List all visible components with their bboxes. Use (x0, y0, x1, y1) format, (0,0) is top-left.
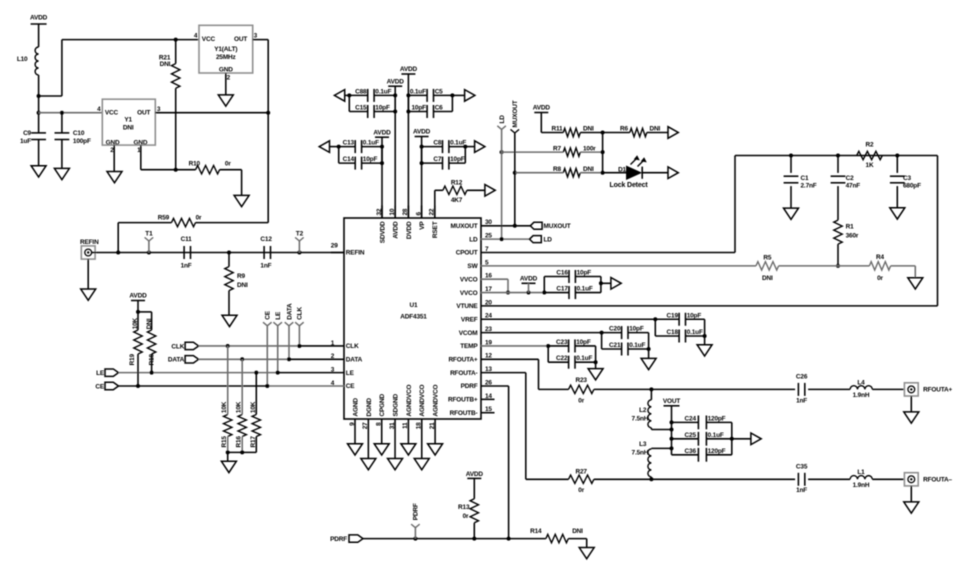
svg-text:10pF: 10pF (687, 312, 702, 319)
svg-text:VP: VP (419, 221, 426, 230)
svg-text:DVDD: DVDD (406, 221, 413, 239)
svg-text:RFOUTA+: RFOUTA+ (448, 357, 477, 364)
svg-text:AVDD: AVDD (393, 221, 400, 239)
svg-text:C12: C12 (260, 236, 272, 243)
svg-text:10pF: 10pF (577, 270, 592, 277)
svg-text:DNI: DNI (583, 126, 594, 133)
svg-text:R4: R4 (876, 254, 884, 261)
svg-text:R59: R59 (158, 215, 170, 222)
svg-text:L10: L10 (17, 56, 28, 63)
svg-text:CPGND: CPGND (379, 394, 386, 417)
svg-text:L1: L1 (857, 469, 865, 476)
svg-text:10K: 10K (250, 401, 257, 413)
svg-text:R19: R19 (129, 353, 136, 365)
svg-text:C2: C2 (846, 175, 854, 182)
svg-text:47nF: 47nF (846, 183, 861, 190)
svg-text:VVCO: VVCO (460, 276, 478, 283)
svg-text:OUT: OUT (234, 36, 247, 43)
svg-text:DNI: DNI (572, 528, 583, 535)
svg-text:10K: 10K (221, 401, 228, 413)
svg-text:C11: C11 (181, 236, 193, 243)
svg-text:DATA: DATA (346, 357, 363, 364)
svg-text:10K: 10K (132, 317, 139, 329)
svg-text:T2: T2 (296, 230, 304, 237)
svg-text:C22: C22 (556, 355, 568, 362)
svg-text:AVDD: AVDD (373, 129, 391, 136)
svg-text:8: 8 (376, 422, 383, 426)
svg-text:AVDD: AVDD (30, 14, 48, 21)
svg-text:18: 18 (416, 422, 423, 429)
svg-text:C7: C7 (433, 156, 441, 163)
svg-text:REFIN: REFIN (346, 250, 365, 257)
svg-text:LE: LE (275, 311, 282, 320)
svg-text:SW: SW (467, 263, 478, 270)
svg-text:L2: L2 (639, 407, 647, 414)
svg-text:AVDD: AVDD (466, 471, 484, 478)
svg-text:C8: C8 (433, 140, 441, 147)
svg-text:R7: R7 (553, 145, 561, 152)
svg-text:MUXOUT: MUXOUT (544, 223, 571, 230)
svg-text:2: 2 (227, 75, 231, 82)
svg-text:AVDD: AVDD (520, 275, 538, 282)
svg-text:21: 21 (429, 422, 436, 429)
svg-text:100r: 100r (583, 145, 596, 152)
svg-text:RFOUTA–: RFOUTA– (923, 477, 952, 484)
svg-text:C14: C14 (343, 156, 355, 163)
svg-text:C24: C24 (685, 415, 697, 422)
svg-text:RFOUTB+: RFOUTB+ (448, 397, 478, 404)
svg-text:DNI: DNI (123, 125, 134, 132)
svg-text:CE: CE (265, 310, 272, 319)
svg-text:AGNDVCO: AGNDVCO (433, 385, 440, 417)
svg-text:2.7nF: 2.7nF (801, 183, 817, 190)
svg-text:0r: 0r (225, 160, 231, 167)
svg-text:L3: L3 (639, 441, 647, 448)
svg-text:C88: C88 (355, 88, 367, 95)
svg-text:DATA: DATA (168, 357, 185, 364)
svg-text:C18: C18 (667, 329, 679, 336)
svg-text:AVDD: AVDD (533, 105, 551, 112)
svg-text:CLK: CLK (346, 343, 359, 350)
svg-text:1uF: 1uF (20, 138, 31, 145)
svg-text:AGNDVCO: AGNDVCO (406, 385, 413, 417)
svg-text:RSET: RSET (432, 221, 439, 238)
svg-text:AVDD: AVDD (129, 293, 147, 300)
svg-text:R6: R6 (620, 126, 628, 133)
svg-text:R23: R23 (576, 377, 588, 384)
svg-text:0.1uF: 0.1uF (708, 432, 724, 439)
svg-text:DGND: DGND (366, 398, 373, 417)
svg-text:C15: C15 (355, 105, 367, 112)
svg-text:1.9nH: 1.9nH (853, 482, 870, 489)
svg-text:C6: C6 (435, 105, 443, 112)
svg-text:LD: LD (544, 236, 553, 243)
svg-text:1nF: 1nF (796, 487, 807, 494)
svg-text:Y1: Y1 (124, 117, 132, 124)
svg-text:DNI: DNI (762, 275, 773, 282)
svg-text:0r: 0r (196, 215, 202, 222)
svg-text:RFOUTA+: RFOUTA+ (923, 387, 952, 394)
svg-text:RFOUTA-: RFOUTA- (450, 370, 477, 377)
svg-text:C10: C10 (73, 130, 85, 137)
svg-text:GND: GND (106, 139, 120, 146)
svg-text:10pF: 10pF (363, 156, 378, 163)
svg-text:DNI: DNI (146, 318, 153, 329)
svg-text:RFOUTB-: RFOUTB- (450, 410, 478, 417)
svg-text:C23: C23 (556, 339, 568, 346)
svg-text:1nF: 1nF (260, 263, 271, 270)
svg-text:R14: R14 (530, 528, 542, 535)
svg-text:1.9nH: 1.9nH (853, 392, 870, 399)
svg-text:1nF: 1nF (181, 263, 192, 270)
svg-text:C20: C20 (609, 326, 621, 333)
svg-text:ADF4351: ADF4351 (400, 314, 427, 321)
svg-text:PDRF: PDRF (461, 383, 478, 390)
svg-text:VCC: VCC (105, 110, 119, 117)
svg-text:0r: 0r (463, 513, 469, 520)
svg-text:C26: C26 (796, 374, 808, 381)
svg-text:120pF: 120pF (708, 415, 726, 422)
svg-text:4: 4 (194, 32, 198, 39)
svg-text:VOUT: VOUT (663, 398, 681, 405)
svg-text:100pF: 100pF (73, 138, 91, 145)
svg-text:VCC: VCC (202, 36, 216, 43)
svg-text:DNI: DNI (160, 61, 171, 68)
svg-text:R9: R9 (237, 273, 245, 280)
svg-text:DNI: DNI (583, 166, 594, 173)
svg-text:Lock Detect: Lock Detect (610, 182, 649, 189)
svg-text:VVCO: VVCO (460, 290, 478, 297)
svg-text:DNI: DNI (650, 126, 661, 133)
svg-text:R2: R2 (866, 141, 874, 148)
svg-text:AVDD: AVDD (387, 78, 405, 85)
svg-text:4K7: 4K7 (451, 197, 463, 204)
svg-text:AVDD: AVDD (400, 66, 418, 73)
svg-text:R11: R11 (551, 126, 563, 133)
svg-text:LD: LD (499, 115, 506, 124)
svg-text:7.5nH: 7.5nH (632, 415, 649, 422)
svg-text:7.5nH: 7.5nH (632, 449, 649, 456)
svg-text:Y1(ALT): Y1(ALT) (214, 46, 237, 53)
svg-text:C3: C3 (903, 175, 911, 182)
svg-text:CPOUT: CPOUT (456, 250, 478, 257)
svg-text:LD: LD (469, 236, 478, 243)
svg-text:R5: R5 (763, 254, 771, 261)
svg-text:10pF: 10pF (411, 105, 426, 112)
svg-text:R12: R12 (451, 180, 463, 187)
svg-text:AVDD: AVDD (413, 129, 431, 136)
svg-text:VREF: VREF (461, 316, 478, 323)
svg-text:0.1uF: 0.1uF (576, 355, 592, 362)
svg-text:PDRF: PDRF (413, 503, 420, 520)
svg-text:0r: 0r (578, 487, 584, 494)
svg-text:0.1uF: 0.1uF (577, 286, 593, 293)
svg-text:0r: 0r (877, 275, 883, 282)
svg-text:TEMP: TEMP (460, 343, 478, 350)
svg-text:C36: C36 (685, 448, 697, 455)
svg-text:R8: R8 (553, 166, 561, 173)
svg-text:VTUNE: VTUNE (456, 303, 478, 310)
svg-text:C21: C21 (609, 342, 621, 349)
svg-text:29: 29 (331, 243, 338, 250)
svg-text:OUT: OUT (137, 110, 150, 117)
svg-text:0.1uF: 0.1uF (375, 88, 391, 95)
svg-text:10pF: 10pF (375, 105, 390, 112)
svg-text:25MHz: 25MHz (216, 54, 236, 61)
svg-text:C17: C17 (556, 286, 568, 293)
svg-text:SDGND: SDGND (392, 394, 399, 417)
svg-text:MUXOUT: MUXOUT (451, 223, 478, 230)
svg-text:AGND: AGND (352, 398, 359, 417)
svg-text:C19: C19 (667, 312, 679, 319)
svg-text:CLK: CLK (297, 307, 304, 320)
svg-text:CLK: CLK (171, 343, 184, 350)
svg-text:CE: CE (346, 383, 355, 390)
svg-text:0.1uF: 0.1uF (410, 88, 426, 95)
svg-text:T1: T1 (145, 230, 153, 237)
svg-text:C1: C1 (801, 175, 809, 182)
svg-text:LE: LE (96, 370, 105, 377)
svg-text:10pF: 10pF (450, 156, 465, 163)
svg-text:0.1uF: 0.1uF (687, 329, 703, 336)
svg-text:R13: R13 (458, 504, 470, 511)
svg-text:120pF: 120pF (708, 448, 726, 455)
svg-text:DATA: DATA (286, 303, 293, 320)
svg-text:0.1uF: 0.1uF (363, 140, 379, 147)
svg-text:0r: 0r (578, 398, 584, 405)
svg-text:LE: LE (346, 370, 355, 377)
svg-text:L4: L4 (857, 379, 865, 386)
svg-text:0.1uF: 0.1uF (629, 342, 645, 349)
svg-text:R18: R18 (149, 353, 156, 365)
svg-text:MUXOUT: MUXOUT (512, 100, 519, 127)
svg-text:SDVDD: SDVDD (379, 221, 386, 243)
svg-text:3: 3 (254, 32, 258, 39)
svg-text:R10: R10 (189, 161, 201, 168)
svg-text:680pF: 680pF (903, 183, 921, 190)
svg-text:C13: C13 (343, 140, 355, 147)
svg-text:D1: D1 (618, 166, 626, 173)
svg-text:9: 9 (349, 422, 356, 426)
svg-text:C25: C25 (685, 432, 697, 439)
svg-text:CE: CE (95, 383, 104, 390)
svg-text:360r: 360r (846, 233, 859, 240)
svg-text:U1: U1 (410, 302, 418, 309)
svg-text:AGNDVCO: AGNDVCO (419, 385, 426, 417)
svg-text:DNI: DNI (237, 282, 248, 289)
svg-text:R27: R27 (576, 469, 588, 476)
svg-text:C16: C16 (556, 270, 568, 277)
svg-text:11: 11 (402, 422, 409, 429)
svg-text:C9: C9 (23, 130, 31, 137)
svg-text:10pF: 10pF (576, 339, 591, 346)
svg-text:C5: C5 (435, 88, 443, 95)
svg-text:1nF: 1nF (796, 397, 807, 404)
svg-text:GND: GND (219, 66, 233, 73)
svg-text:1K: 1K (866, 162, 874, 169)
svg-text:10pF: 10pF (629, 326, 644, 333)
svg-text:4: 4 (97, 106, 101, 113)
svg-text:R1: R1 (846, 224, 854, 231)
svg-text:PDRF: PDRF (330, 536, 347, 543)
svg-text:27: 27 (362, 422, 369, 429)
svg-text:REFIN: REFIN (80, 239, 99, 246)
svg-text:VCOM: VCOM (459, 330, 478, 337)
svg-text:31: 31 (389, 422, 396, 429)
svg-text:C35: C35 (796, 464, 808, 471)
svg-text:10K: 10K (236, 401, 243, 413)
